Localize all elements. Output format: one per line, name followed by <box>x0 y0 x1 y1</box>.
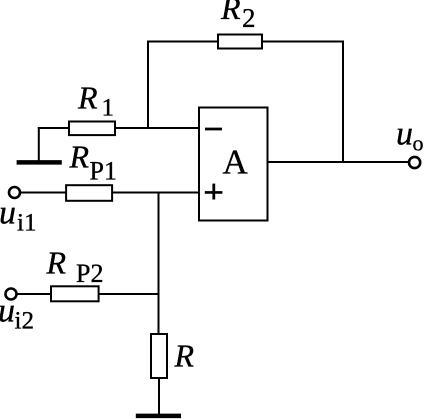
svg-text:2: 2 <box>242 3 256 33</box>
node u_i1 terminal <box>9 187 20 198</box>
node u_o terminal <box>409 157 420 168</box>
ground bottom <box>136 414 181 419</box>
ground left <box>17 160 62 165</box>
wire output <box>267 161 410 163</box>
svg-text:R: R <box>174 338 195 374</box>
resistor RP1 <box>66 139 117 201</box>
wire ground stub left <box>38 127 40 162</box>
label u_i2 <box>0 293 34 335</box>
wire u_i2 input <box>17 293 159 295</box>
label u_o <box>396 116 424 156</box>
svg-text:i1: i1 <box>17 210 36 237</box>
resistor R <box>151 334 195 378</box>
svg-text:P1: P1 <box>90 157 117 186</box>
resistor R2 <box>218 0 262 49</box>
svg-text:R: R <box>77 80 98 116</box>
svg-text:o: o <box>413 131 424 156</box>
wire top feedback horizontal <box>148 41 343 43</box>
wire noninverting node vertical <box>158 192 160 335</box>
svg-text:i2: i2 <box>15 308 34 335</box>
wire feedback right vertical <box>342 41 344 164</box>
resistor R1 <box>69 80 115 136</box>
svg-text:u: u <box>0 195 16 232</box>
op-amp A <box>199 108 268 221</box>
wire feedback left vertical <box>147 41 149 130</box>
svg-text:R: R <box>46 245 67 281</box>
svg-text:1: 1 <box>102 95 115 122</box>
wire R to ground <box>158 378 160 416</box>
svg-text:A: A <box>223 143 249 182</box>
label u_i1 <box>0 195 36 237</box>
wire noninverting input <box>20 192 200 194</box>
wire inverting input <box>38 127 200 129</box>
svg-text:u: u <box>396 116 413 153</box>
resistor RP2 <box>46 245 104 302</box>
node u_i2 terminal <box>6 289 17 300</box>
svg-text:R: R <box>69 139 90 175</box>
svg-text:R: R <box>220 0 241 26</box>
svg-text:P2: P2 <box>76 259 103 288</box>
svg-text:u: u <box>0 293 15 330</box>
